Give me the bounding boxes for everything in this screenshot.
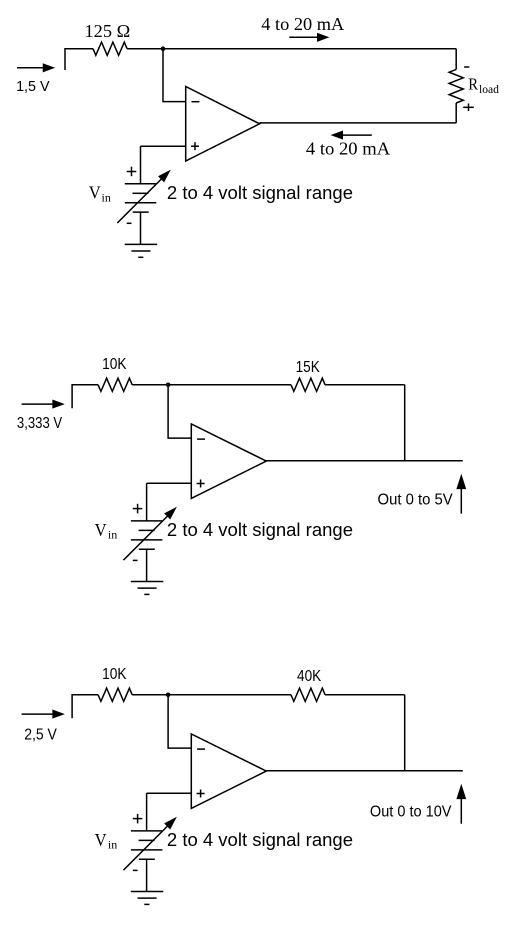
- input arrow (3,333 V): [22, 401, 63, 408]
- wire battery to ground (circuit 3): [146, 859, 148, 891]
- battery V_in plates (circuit 1): [125, 146, 157, 212]
- node junction dot: [161, 46, 166, 51]
- wire op-amp output: [266, 770, 463, 772]
- battery V_in plates (circuit 2): [131, 483, 163, 549]
- battery positive terminal label + (circuit 2): [133, 504, 143, 514]
- resistor R1 125 ohm: [93, 42, 127, 55]
- op-amp inverting input marker -3: [197, 748, 205, 750]
- wire junction to inverting input: [163, 49, 186, 102]
- wire feedback vertical: [404, 695, 406, 771]
- svg-text:in: in: [108, 528, 117, 542]
- battery negative terminal label - (circuit 2): [133, 559, 138, 561]
- resistor R_load: [449, 69, 463, 103]
- svg-text:V: V: [95, 520, 107, 540]
- svg-text:15K: 15K: [296, 359, 320, 376]
- resistor 10K input: [98, 378, 132, 391]
- op-amp U2: [191, 424, 266, 499]
- svg-text:in: in: [108, 838, 117, 852]
- svg-text:4 to 20 mA: 4 to 20 mA: [306, 139, 390, 159]
- op-amp U3: [191, 734, 266, 809]
- wire feedback vertical: [404, 385, 406, 461]
- svg-text:40K: 40K: [297, 668, 321, 685]
- svg-text:1,5 V: 1,5 V: [16, 78, 49, 95]
- resistor 10K input: [98, 688, 132, 701]
- battery positive terminal label + (circuit 3): [133, 814, 143, 824]
- svg-text:125 Ω: 125 Ω: [85, 21, 131, 41]
- svg-text:2 to 4 volt signal range: 2 to 4 volt signal range: [167, 183, 353, 203]
- wire battery to ground (circuit 2): [146, 549, 148, 581]
- svg-text:2,5 V: 2,5 V: [24, 726, 57, 743]
- variable-source diagonal arrow (circuit 1): [117, 171, 169, 223]
- svg-text:R: R: [468, 74, 478, 93]
- output arrow up: [457, 476, 465, 514]
- svg-text:Out 0 to 10V: Out 0 to 10V: [370, 804, 452, 821]
- current direction arrow 4-20 mA top: [289, 34, 327, 41]
- wire junction to inverting input: [168, 695, 191, 748]
- wire R_load top lead: [455, 49, 457, 70]
- wire op-amp output: [266, 460, 463, 462]
- battery negative terminal label - (circuit 1): [127, 222, 132, 224]
- op-amp non-inverting input marker +3: [197, 790, 205, 798]
- svg-text:in: in: [102, 190, 111, 204]
- wire 10K to feedback resistor: [132, 384, 291, 386]
- wire feedback resistor to output node: [325, 694, 405, 696]
- wire R_load bottom lead: [455, 103, 457, 123]
- output arrow up: [457, 786, 465, 824]
- input arrow (1,5 V source): [17, 64, 53, 71]
- label R_load minus polarity: [464, 66, 469, 68]
- svg-text:V: V: [89, 183, 101, 203]
- label R_load: [468, 74, 499, 96]
- wire input stub: [72, 695, 98, 718]
- wire top rail to R_load: [127, 48, 456, 50]
- resistor 15K feedback: [291, 378, 325, 391]
- ground (circuit 1): [125, 244, 158, 257]
- ground (circuit 3): [131, 892, 164, 905]
- svg-text:2 to 4 volt signal range: 2 to 4 volt signal range: [167, 520, 353, 540]
- label V_in circuit 3: [95, 830, 118, 852]
- current direction arrow 4-20 mA bottom: [333, 132, 372, 139]
- label V_in circuit 2: [95, 520, 118, 542]
- svg-text:3,333 V: 3,333 V: [17, 415, 63, 432]
- svg-text:10K: 10K: [102, 666, 127, 683]
- node junction dot: [166, 383, 171, 388]
- svg-text:Out 0 to 5V: Out 0 to 5V: [378, 492, 454, 509]
- label R_load plus polarity: [463, 104, 474, 112]
- svg-text:V: V: [95, 830, 107, 850]
- wire non-inverting input to battery: [147, 792, 192, 794]
- node junction dot: [166, 693, 171, 698]
- battery negative terminal label - (circuit 3): [133, 869, 138, 871]
- svg-text:load: load: [479, 82, 499, 96]
- op-amp non-inverting input marker +1: [191, 142, 199, 150]
- battery positive terminal label + (circuit 1): [127, 167, 137, 177]
- op-amp inverting input marker -2: [197, 438, 205, 440]
- wire input stub: [72, 385, 98, 408]
- svg-text:4 to 20 mA: 4 to 20 mA: [261, 14, 344, 34]
- input arrow (2,5 V): [22, 711, 63, 718]
- svg-text:2 to 4 volt signal range: 2 to 4 volt signal range: [167, 830, 353, 850]
- wire non-inverting input to battery: [141, 145, 186, 147]
- wire battery to ground (circuit 1): [140, 212, 142, 244]
- wire bottom return rail: [260, 122, 457, 124]
- wire input stub: [65, 49, 93, 70]
- resistor 40K feedback: [291, 688, 325, 701]
- label V_in circuit 1: [89, 183, 111, 205]
- variable-source diagonal arrow (circuit 2): [123, 509, 175, 561]
- svg-text:10K: 10K: [102, 356, 127, 373]
- battery V_in plates (circuit 3): [131, 793, 163, 859]
- wire junction to inverting input: [168, 385, 191, 438]
- ground (circuit 2): [131, 582, 164, 595]
- wire feedback resistor to output node: [325, 384, 405, 386]
- wire non-inverting input to battery: [147, 482, 192, 484]
- op-amp U1: [186, 87, 260, 162]
- variable-source diagonal arrow (circuit 3): [123, 819, 175, 871]
- op-amp non-inverting input marker +2: [197, 480, 205, 488]
- op-amp inverting input marker -1: [192, 101, 200, 103]
- wire 10K to feedback resistor: [132, 694, 291, 696]
